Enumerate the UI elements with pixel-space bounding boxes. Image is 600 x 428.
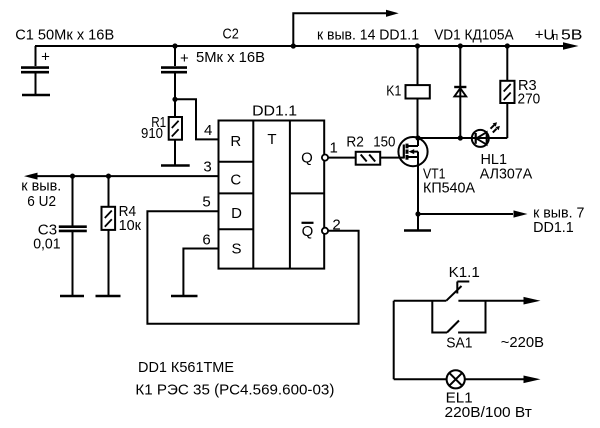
label k vyv 6 U2 [21, 178, 61, 210]
svg-text:270: 270 [518, 90, 541, 107]
transistor VT1 MOSFET [398, 137, 427, 214]
svg-text:5: 5 [202, 194, 210, 211]
node branch to pin 14 arrow [291, 43, 296, 48]
svg-text:R: R [230, 133, 241, 150]
svg-text:АЛ307А: АЛ307А [480, 165, 532, 182]
relay coil K1 [406, 46, 430, 138]
svg-text:1: 1 [330, 139, 338, 156]
node VD1 bottom [458, 135, 463, 140]
wire feedback Q-bar to D [147, 211, 358, 323]
label Q-bar output [302, 223, 314, 240]
capacitor C1 [21, 46, 50, 95]
svg-text:SA1: SA1 [446, 335, 472, 352]
ground under C3 [60, 295, 84, 298]
ground under C1 [22, 94, 50, 97]
node C3 junction [70, 174, 75, 179]
svg-text:5Мк х 16В: 5Мк х 16В [196, 49, 265, 66]
wire pin 6 S to ground [183, 249, 218, 297]
ground under S pin [171, 295, 198, 298]
resistor R1 [169, 99, 182, 165]
switch SA1 branch [432, 301, 485, 333]
svg-text:~220В: ~220В [501, 334, 544, 351]
svg-text:п: п [552, 31, 558, 43]
svg-text:VD1 КД105А: VD1 КД105А [434, 27, 513, 44]
LED HL1 [472, 122, 500, 147]
wire 220V left bus [393, 301, 395, 380]
wire source to k vyv 7 arrow [418, 210, 528, 217]
wire R2 to gate [380, 157, 404, 159]
label +Un 5V [535, 27, 583, 44]
svg-text:к выв. 14 DD1.1: к выв. 14 DD1.1 [317, 27, 419, 44]
wire C2 node to pin 4 [175, 99, 219, 139]
svg-text:+: + [41, 49, 50, 66]
wire K1.1 line with arrow [394, 297, 541, 305]
node VD1 top on rail [458, 43, 463, 48]
svg-text:K1.1: K1.1 [449, 264, 480, 281]
node R1 top junction [172, 97, 177, 102]
svg-text:3: 3 [203, 159, 211, 176]
lamp EL1 [394, 370, 541, 388]
pin 2 terminal circle [322, 228, 328, 234]
ground under VT1 source [404, 214, 431, 231]
svg-text:К1 РЭС 35 (РС4.569.600-03): К1 РЭС 35 (РС4.569.600-03) [135, 382, 334, 399]
svg-text:4: 4 [204, 122, 212, 139]
node source junction [415, 211, 420, 216]
svg-text:С1 50Мк х 16В: С1 50Мк х 16В [15, 27, 114, 44]
capacitor C2 [161, 46, 189, 99]
diode VD1 [454, 46, 466, 138]
svg-text:910: 910 [141, 125, 163, 142]
svg-text:Q: Q [301, 150, 313, 167]
wire arrow to pin 14 DD1.1 [293, 10, 398, 46]
svg-text:150: 150 [373, 133, 395, 150]
IC DD1.1 flip-flop [219, 121, 325, 269]
node R3 on rail [505, 43, 510, 48]
wire pin 3 to left arrow [24, 173, 219, 180]
svg-text:R2: R2 [346, 133, 364, 150]
svg-text:220В/100 Вт: 220В/100 Вт [445, 404, 532, 421]
svg-text:КП540А: КП540А [423, 179, 475, 196]
wire pin 1 to R2 [328, 157, 356, 159]
svg-text:C2: C2 [223, 26, 239, 43]
resistor R3 [500, 46, 514, 138]
relay contact K1.1 [446, 282, 469, 301]
node C2 junction on rail [172, 43, 177, 48]
node K1 on rail [415, 43, 420, 48]
svg-text:S: S [231, 241, 241, 258]
resistor R2 [356, 152, 381, 165]
svg-text:T: T [267, 131, 276, 148]
svg-text:+: + [180, 50, 189, 67]
svg-text:6 U2: 6 U2 [27, 193, 56, 210]
node R4 junction [106, 174, 111, 179]
svg-text:10к: 10к [119, 217, 142, 234]
svg-text:DD1 К561ТМЕ: DD1 К561ТМЕ [138, 359, 234, 376]
svg-text:5В: 5В [561, 27, 583, 44]
wire +5V top rail [35, 42, 579, 50]
node drain junction [415, 135, 420, 140]
svg-text:C: C [230, 172, 241, 189]
svg-text:DD1.1: DD1.1 [252, 103, 297, 120]
pin 1 terminal circle [322, 155, 328, 161]
svg-text:D: D [231, 205, 242, 222]
svg-text:0,01: 0,01 [33, 235, 60, 252]
resistor R4 [102, 176, 116, 296]
svg-text:6: 6 [202, 232, 210, 249]
capacitor C3 [59, 176, 87, 296]
ground under R1 [161, 164, 190, 167]
svg-text:K1: K1 [386, 83, 401, 100]
ground under R4 [96, 295, 121, 298]
svg-text:Q: Q [302, 223, 314, 240]
svg-text:DD1.1: DD1.1 [533, 219, 574, 236]
wire drain rail [418, 137, 507, 139]
